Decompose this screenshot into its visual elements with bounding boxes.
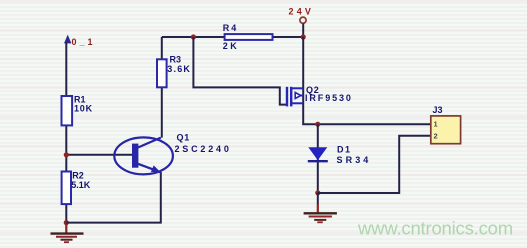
port 0_1 arrow [64,35,71,44]
junction base node [64,152,69,157]
wire Q1 base [66,154,132,156]
wire R3 column / collector rail [161,37,163,138]
ground right [304,193,337,223]
svg-text:Q1: Q1 [177,133,191,143]
wire gate route [193,37,287,105]
svg-text:J3: J3 [433,105,443,115]
svg-text:R4: R4 [223,23,239,33]
svg-text:0_1: 0_1 [72,37,96,47]
transistor Q2 [287,87,303,107]
junction diode bottom node [315,190,320,195]
ground left [51,223,84,243]
svg-text:R2: R2 [72,170,84,180]
wire diode branch [317,124,319,193]
svg-text:2K: 2K [223,41,240,51]
resistor R2 [62,172,71,205]
diode D1 [308,147,328,161]
resistor R1 [62,96,73,125]
svg-text:SR34: SR34 [337,155,372,165]
connector J3 [431,116,461,144]
svg-text:www.cntronics.com: www.cntronics.com [357,218,513,239]
wire 24V stem [302,23,304,37]
junction 24V node [301,34,306,39]
wire 24V rail down to drain corner [303,37,431,124]
resistor R4 [225,34,273,40]
svg-text:3.6K: 3.6K [167,64,191,74]
svg-text:2SC2240: 2SC2240 [175,144,232,154]
svg-text:24V: 24V [289,7,315,17]
svg-text:10K: 10K [74,104,93,114]
svg-text:IRF9530: IRF9530 [305,93,353,103]
wire J3 pin2 route [318,136,431,193]
junction bottom left node [64,220,69,225]
wire top run [162,36,303,38]
wire left rail [65,42,67,223]
transistor Q1 [114,137,173,174]
junction gate branch [191,34,196,39]
svg-text:2: 2 [434,131,438,140]
svg-text:5.1K: 5.1K [71,180,91,190]
svg-text:D1: D1 [337,144,352,154]
svg-text:1: 1 [434,119,438,128]
wire bottom run [66,172,161,223]
junction drain node [315,122,320,127]
resistor R3 [157,59,167,87]
